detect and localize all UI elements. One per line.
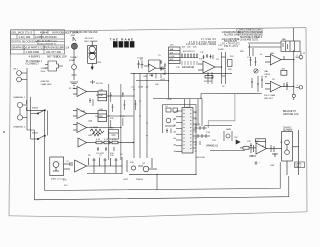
- svg-text:OUTPUT: OUTPUT: [283, 130, 293, 132]
- svg-text:DIGITAL BLOCK/DIAG: DIGITAL BLOCK/DIAG: [11, 40, 38, 44]
- svg-text:10K 10K 10K: 10K 10K 10K: [182, 67, 194, 69]
- svg-text:CCW: CCW: [170, 56, 175, 58]
- svg-text:1 40 | 394: 1 40 | 394: [19, 35, 31, 39]
- svg-text:GND LIFT: GND LIFT: [264, 98, 274, 100]
- svg-text:COIL 1DR: COIL 1DR: [56, 56, 67, 58]
- svg-text:GRAPH EQ/LM PARTS COPER ENGELB: GRAPH EQ/LM PARTS COPER ENGELBRG 14: [11, 46, 69, 50]
- svg-text:U7A: U7A: [270, 164, 275, 167]
- svg-text:2.2K: 2.2K: [196, 124, 201, 126]
- svg-text:GRN/YEL: GRN/YEL: [41, 81, 51, 83]
- svg-text:C4 22PF: C4 22PF: [95, 116, 104, 118]
- svg-text:CW: CW: [234, 137, 237, 139]
- svg-text:2N3904: 2N3904: [136, 179, 144, 181]
- svg-text:U2A: U2A: [88, 120, 93, 123]
- svg-text:4 900PF1: 4 900PF1: [29, 55, 41, 59]
- svg-text:IN RGGBLN: IN RGGBLN: [52, 30, 67, 34]
- svg-text:SW2A: SW2A: [32, 107, 38, 110]
- svg-text:SW2B: SW2B: [32, 133, 38, 135]
- svg-text:CH 1: CH 1: [13, 69, 19, 71]
- svg-text:4.7K: 4.7K: [96, 139, 101, 141]
- svg-text:CHANNEL 1: CHANNEL 1: [13, 96, 26, 99]
- svg-text:PIN 1 CHAS: PIN 1 CHAS: [264, 94, 276, 97]
- svg-text:R40 100K: R40 100K: [196, 157, 206, 159]
- svg-text:GROUND LUG: GROUND LUG: [283, 114, 299, 116]
- svg-text:LDR: LDR: [99, 89, 104, 91]
- svg-text:R6 10K: R6 10K: [96, 95, 103, 97]
- svg-text:BOOST/CUT: BOOST/CUT: [183, 51, 195, 53]
- svg-text:2.2K: 2.2K: [206, 132, 211, 134]
- svg-text:PIN 8 +15 V: PIN 8 +15 V: [224, 46, 238, 48]
- svg-text:41B-4: 41B-4: [40, 30, 48, 34]
- svg-text:115 VOLT: 115 VOLT: [85, 38, 95, 40]
- svg-text:SN ACCORDION 7C: SN ACCORDION 7C: [37, 42, 57, 45]
- svg-text:115V: 115V: [97, 62, 102, 64]
- svg-text:.0047: .0047: [123, 179, 129, 181]
- svg-text:100PF: 100PF: [218, 49, 225, 51]
- svg-text:4.7K: 4.7K: [112, 139, 117, 141]
- svg-text:CHAN 2: CHAN 2: [283, 127, 292, 130]
- svg-text:4-30 ROHD: 4-30 ROHD: [43, 35, 57, 39]
- svg-text:0 CONNECT: 0 CONNECT: [26, 64, 40, 66]
- svg-text:CBL 2: CBL 2: [295, 166, 302, 168]
- svg-text:SEC 84 8 RATIO 4-m: SEC 84 8 RATIO 4-m: [37, 39, 57, 42]
- svg-text:VR#081-01: VR#081-01: [206, 145, 219, 148]
- svg-text:TY USE ON-OFF SW AND: TY USE ON-OFF SW AND: [70, 31, 98, 34]
- svg-text:LY USE OF: LY USE OF: [201, 39, 217, 41]
- svg-text:B: B: [3, 130, 5, 134]
- svg-text:120VAC: 120VAC: [70, 56, 78, 59]
- svg-text:R5 10K: R5 10K: [96, 83, 103, 85]
- svg-text:U1A: U1A: [81, 110, 86, 113]
- svg-text:U2B: U2B: [88, 135, 93, 137]
- svg-text:CHAS GND: CHAS GND: [41, 83, 52, 86]
- svg-text:U2B: U2B: [143, 76, 148, 78]
- svg-text:4.7K: 4.7K: [104, 139, 109, 141]
- svg-text:1 400 0190: 1 400 0190: [26, 50, 40, 54]
- svg-text:FBUS: FBUS: [265, 74, 271, 76]
- svg-text:ONLY XFRMR: ONLY XFRMR: [84, 41, 98, 43]
- svg-text:441 377 390: 441 377 390: [46, 50, 61, 54]
- svg-text:+15V: +15V: [167, 99, 172, 101]
- svg-text:COM: COM: [138, 87, 143, 89]
- svg-text:4 U1-U6 ARE TL072: 4 U1-U6 ARE TL072: [238, 38, 259, 41]
- svg-text:THE RANE: THE RANE: [110, 38, 134, 42]
- svg-text:1 MFD: 1 MFD: [41, 68, 48, 70]
- svg-text:.0022: .0022: [160, 79, 166, 81]
- svg-text:U6B: U6B: [270, 53, 275, 55]
- svg-text:250V: 250V: [41, 71, 46, 73]
- svg-text:BRACKET H: BRACKET H: [283, 110, 296, 113]
- svg-text:L1 33MH: L1 33MH: [90, 127, 99, 129]
- svg-text:PAD: PAD: [282, 38, 287, 41]
- svg-text:GAIN: GAIN: [226, 128, 231, 131]
- svg-text:GEL JACK 27L-S: GEL JACK 27L-S: [11, 30, 32, 34]
- svg-text:#1 CHANNEL 1: #1 CHANNEL 1: [26, 60, 43, 63]
- svg-text:REV: REV: [110, 128, 115, 130]
- svg-text:140 OR 170A(MF) 1980E: 140 OR 170A(MF) 1980E: [186, 43, 216, 46]
- svg-text:R22 22K: R22 22K: [204, 81, 212, 83]
- svg-text:CHANNEL 2: CHANNEL 2: [13, 126, 26, 129]
- svg-text:LDR: LDR: [99, 109, 104, 111]
